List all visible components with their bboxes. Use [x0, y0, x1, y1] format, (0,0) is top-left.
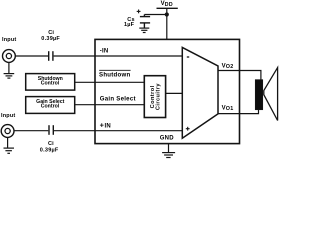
svg-text:Ci: Ci [48, 141, 54, 147]
speaker driver [255, 80, 262, 110]
svg-text:Shutdown: Shutdown [99, 71, 130, 78]
svg-text:Input: Input [1, 113, 15, 119]
wire: gain select control to IC [75, 104, 145, 106]
wire: shutdown control to IC [75, 81, 145, 83]
svg-text:Gain Select: Gain Select [100, 96, 136, 103]
wire: Ci to -IN of amplifier [54, 55, 183, 57]
ground (below top jack) [4, 62, 15, 78]
svg-text:GND: GND [160, 136, 174, 142]
wire: control circuitry to amplifier [166, 92, 183, 94]
input jack J2 (bottom) [1, 125, 14, 138]
svg-text:0.39µF: 0.39µF [40, 147, 59, 153]
svg-text:0.39µF: 0.39µF [41, 36, 60, 42]
supply VDD rail bar [157, 7, 178, 9]
IC package box U1 [95, 39, 240, 143]
capacitor Ci (top) [49, 51, 53, 61]
wire: Vo2 output [218, 71, 261, 80]
svg-text:Circuitry: Circuitry [156, 83, 162, 110]
wire: Ci to +IN of amplifier [54, 130, 182, 132]
svg-text:Control: Control [41, 81, 60, 87]
input jack J1 (top) [2, 50, 15, 63]
gain select control box [26, 97, 75, 114]
svg-text:-IN: -IN [100, 49, 109, 55]
ground (below Cs) [139, 28, 149, 32]
non-inverting input mark + [186, 127, 190, 131]
svg-text:Input: Input [2, 37, 16, 43]
wire: top jack to capacitor Ci [15, 55, 48, 57]
capacitor Cs [140, 15, 150, 28]
svg-text:VDD: VDD [161, 1, 173, 8]
shutdown control box [26, 74, 75, 91]
wire: VDD down to IC [166, 8, 168, 39]
inverting input mark - [187, 56, 189, 58]
svg-text:Control: Control [41, 104, 60, 110]
svg-text:VO2: VO2 [222, 63, 234, 70]
wire: junction to Cs [144, 14, 166, 16]
wire: Vo1 output [218, 110, 259, 114]
ground (IC GND pin) [162, 144, 175, 158]
capacitor Ci (bottom) [49, 125, 53, 135]
svg-text:VO1: VO1 [222, 105, 234, 112]
speaker cone [264, 68, 278, 121]
control circuitry box [144, 76, 165, 118]
svg-text:1µF: 1µF [124, 22, 135, 28]
node: VDD / Cs junction dot [165, 12, 169, 16]
ground (below bottom jack) [4, 137, 15, 153]
pin label Shutdown (with overline) [99, 69, 130, 71]
op-amp (bridged power amplifier) [182, 47, 218, 138]
wire: bottom jack to capacitor Ci [14, 130, 48, 132]
polarity + of Cs [137, 10, 141, 14]
